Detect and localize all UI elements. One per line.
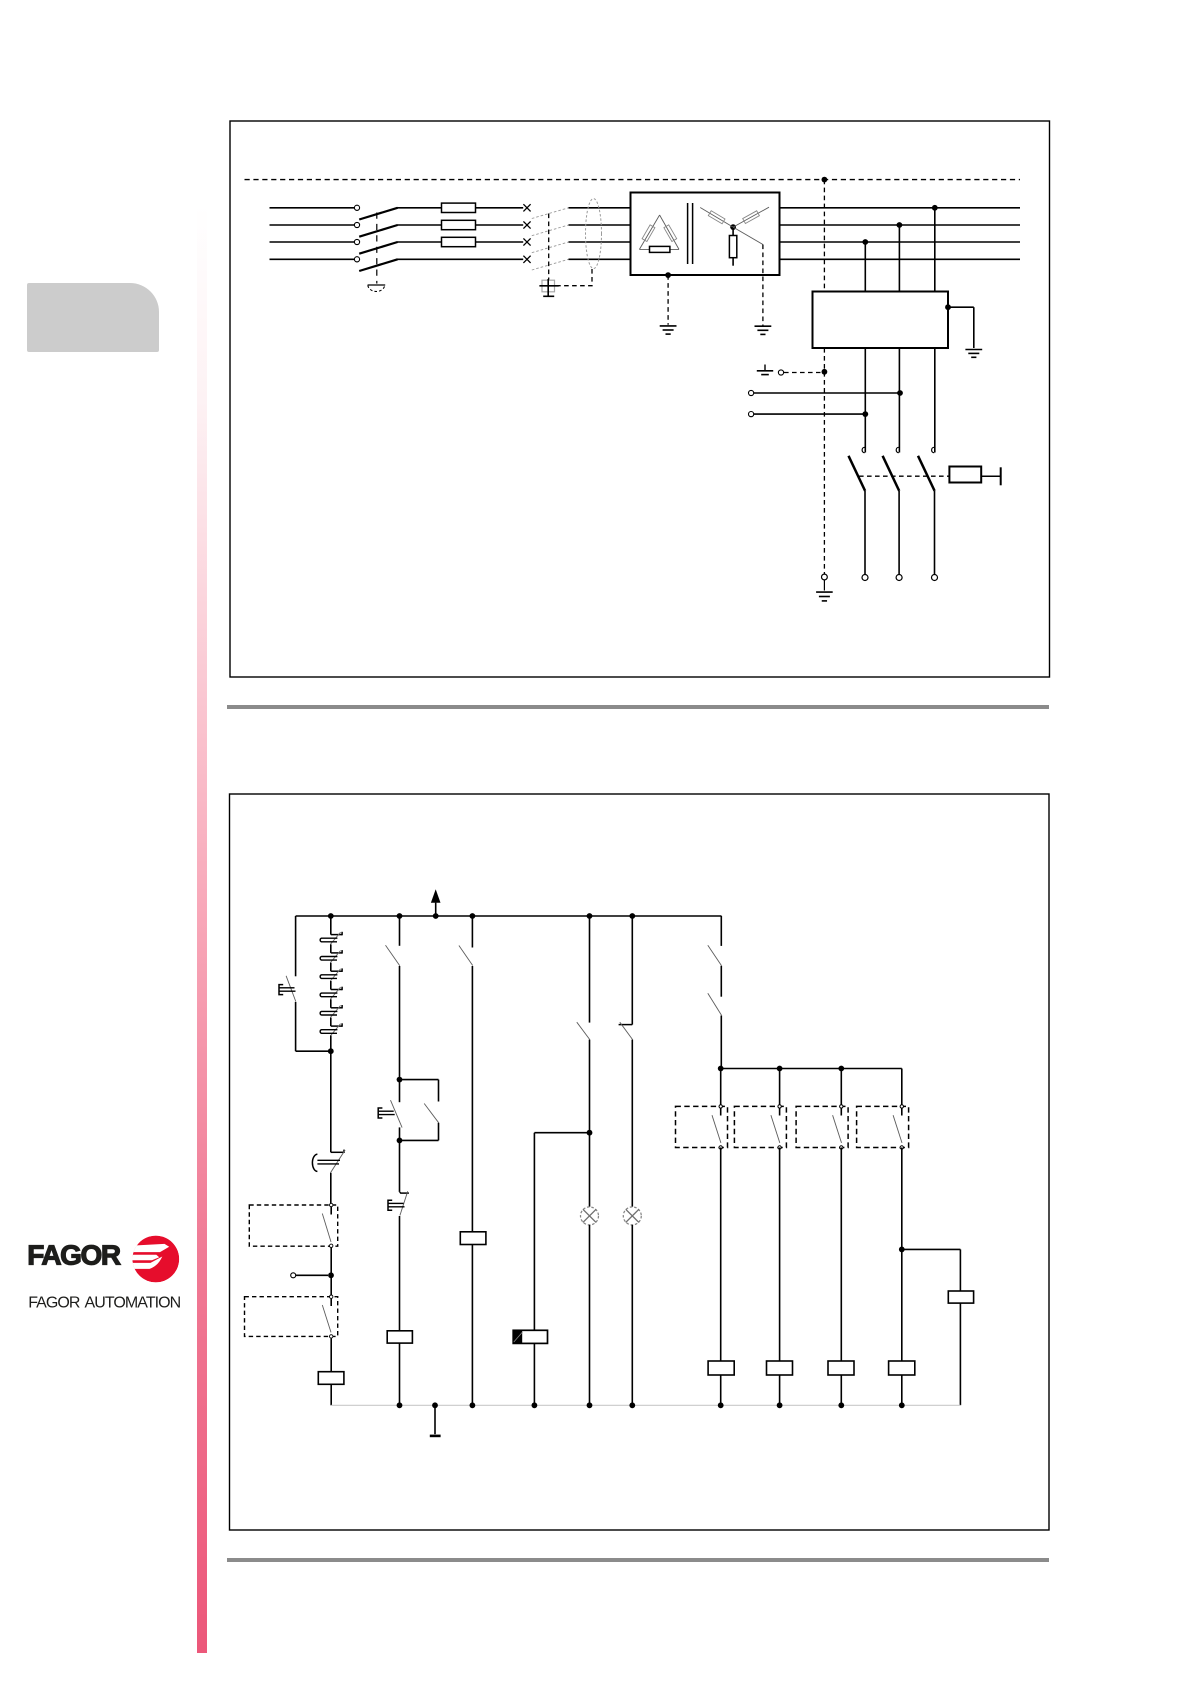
svg-text:FAGOR: FAGOR	[27, 1239, 121, 1270]
svg-text:FAGOR AUTOMATION: FAGOR AUTOMATION	[28, 1295, 180, 1312]
